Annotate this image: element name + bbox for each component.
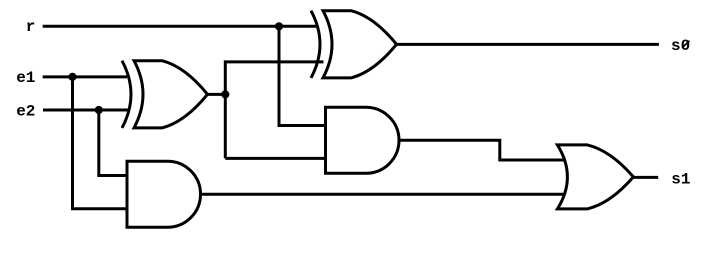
wire e2 input	[43, 109, 130, 112]
svg-text:e1: e1	[16, 69, 35, 87]
and gate U3 middle	[326, 107, 400, 173]
xor gate U1 top (inputs r and node A, output s0)	[311, 11, 397, 78]
xor gate U2 middle (inputs e1 e2)	[122, 61, 208, 128]
wire r input	[43, 25, 318, 28]
junction dot on e1 wire	[68, 73, 76, 81]
or gate U5 output s1	[557, 145, 633, 209]
wire XOR2 output stub to node A	[208, 93, 225, 96]
wire AND1 output step down to OR1 upper input	[400, 140, 565, 160]
slash of zero in s0	[682, 41, 690, 48]
svg-text:s0: s0	[671, 37, 690, 55]
svg-text:r: r	[26, 18, 36, 36]
wire r branch vertical to AND1 upper input	[279, 26, 327, 125]
wire e1 branch vertical to AND2 lower input	[73, 77, 129, 209]
node A junction dot at XOR2 output	[221, 90, 229, 98]
svg-text:s1: s1	[671, 171, 690, 189]
wire e1 input	[43, 75, 127, 78]
wire s0 output	[396, 43, 659, 46]
wire node A up to XOR1 lower input	[225, 62, 323, 158]
wire AND2 output to OR1 lower input	[200, 193, 567, 196]
wire e2 branch vertical to AND2 upper input	[99, 110, 129, 176]
and gate U4 bottom	[127, 161, 201, 227]
svg-text:e2: e2	[16, 103, 35, 121]
wire s1 output	[633, 176, 658, 179]
junction dot on r wire	[275, 22, 283, 30]
junction dot on e2 wire	[95, 106, 103, 114]
wire node A down to AND1 lower input	[225, 157, 327, 160]
